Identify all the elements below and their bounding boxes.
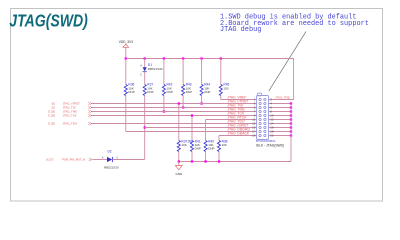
- svg-text:10K: 10K: [181, 143, 186, 147]
- svg-text:10: 10: [270, 114, 274, 118]
- connector pins 17/18: [259, 130, 261, 132]
- connector pins 15/16: [259, 126, 261, 128]
- junction bus pin4: [290, 102, 292, 104]
- junction rail col4: [182, 57, 184, 59]
- wire net JTAG_VREF: [221, 99, 257, 101]
- resistor R41 10K DNP: [190, 141, 193, 152]
- resistor R36 10K DNP: [124, 85, 127, 96]
- ground symbol: [178, 162, 180, 166]
- wire GND bus bottom: [179, 161, 291, 163]
- svg-text:(5): (5): [52, 106, 55, 110]
- svg-text:13: 13: [252, 122, 256, 126]
- connector pins 7/8: [259, 110, 261, 112]
- wire net JTAG_DBGRQ: [126, 131, 257, 133]
- junction nSRST: [144, 126, 146, 128]
- svg-text:18: 18: [270, 130, 274, 134]
- wire pin6 to GND bus: [269, 107, 292, 109]
- junction bus pin10: [290, 114, 292, 116]
- wire net JTAG_RTCK: [206, 119, 257, 121]
- wire pin8 to GND bus: [269, 111, 292, 113]
- svg-text:100: 100: [223, 86, 228, 90]
- wire POR to D2 anode: [92, 159, 107, 161]
- svg-text:SILK - JTAG(SWD): SILK - JTAG(SWD): [256, 143, 284, 147]
- connector J1 20-pin header body: [257, 96, 269, 140]
- junction rail col6: [220, 57, 222, 59]
- svg-text:11: 11: [252, 118, 255, 122]
- junction bus pin16: [290, 126, 292, 128]
- junction R41 top: [191, 114, 193, 116]
- svg-text:19: 19: [252, 134, 256, 138]
- resistor R38 10K: [217, 141, 220, 152]
- wire R43 down: [182, 96, 184, 108]
- wire R40 up to row: [205, 120, 207, 141]
- svg-text:DNP: DNP: [204, 90, 210, 94]
- svg-text:JTAG_TDO: JTAG_TDO: [227, 120, 245, 124]
- resistor R45 100: [219, 85, 222, 96]
- wire net JTAG_nTRST: [92, 103, 257, 105]
- svg-text:JTAG_TCK: JTAG_TCK: [63, 114, 77, 118]
- diode D1 RB521S30: [143, 67, 147, 71]
- wire GND bus vertical: [290, 104, 292, 162]
- junction GND R41: [191, 160, 193, 162]
- svg-text:JTAG_VREF: JTAG_VREF: [227, 96, 246, 100]
- junction R42: [163, 110, 165, 112]
- wire R38 up to row: [218, 136, 220, 141]
- svg-text:(6,27): (6,27): [46, 158, 53, 162]
- wire pin18 to GND bus: [269, 131, 292, 133]
- svg-text:JTAG_TDI: JTAG_TDI: [63, 106, 76, 110]
- svg-text:BH2542WB01: BH2542WB01: [256, 139, 276, 143]
- svg-text:C: C: [117, 156, 119, 159]
- connector pins 3/4: [259, 102, 261, 104]
- svg-text:D1: D1: [148, 63, 152, 67]
- wire pin20 to GND bus: [269, 135, 292, 137]
- resistor R42 10K DNP: [162, 85, 165, 96]
- svg-text:JTAG_DBACK: JTAG_DBACK: [227, 132, 249, 136]
- junction GND R371M: [178, 160, 180, 162]
- resistor R37 10K DNP: [143, 85, 146, 96]
- wire VDD_3V3 drop: [125, 47, 127, 58]
- wire R45 down: [220, 96, 222, 100]
- wire net JTAG_TDO: [92, 123, 257, 125]
- connector polarity notch: [257, 93, 261, 96]
- svg-text:D2: D2: [107, 150, 111, 154]
- svg-text:JTAG_RTCK: JTAG_RTCK: [227, 116, 247, 120]
- svg-text:12: 12: [270, 118, 274, 122]
- connector pins 9/10: [259, 114, 261, 116]
- junction GND R40: [204, 160, 206, 162]
- wire VDD rail: [126, 58, 294, 60]
- resistor R43 10K DNP: [182, 85, 185, 96]
- svg-text:JTAG_nTRST: JTAG_nTRST: [227, 100, 249, 104]
- svg-text:16: 16: [270, 126, 274, 130]
- junction rail col5: [200, 57, 202, 59]
- svg-text:POR_PIN_RST_N: POR_PIN_RST_N: [62, 158, 85, 162]
- svg-text:JTAG_nTRST: JTAG_nTRST: [63, 102, 81, 106]
- wire pin10 to GND bus: [269, 115, 292, 117]
- wire net JTAG_TMS: [92, 111, 257, 113]
- svg-text:VDD_3V3: VDD_3V3: [119, 40, 133, 44]
- svg-text:JTAG(SWD): JTAG(SWD): [9, 10, 88, 30]
- svg-text:JTAG_TDO: JTAG_TDO: [63, 122, 78, 126]
- svg-text:DNP: DNP: [186, 90, 192, 94]
- wire R371M up to row: [178, 104, 180, 141]
- junction bus pin14: [290, 122, 292, 124]
- svg-text:(7,29): (7,29): [48, 122, 55, 126]
- wire R44 down: [201, 96, 203, 104]
- svg-text:JTAG_TCK: JTAG_TCK: [227, 112, 245, 116]
- connector pins 19/20: [259, 134, 261, 136]
- svg-text:14: 14: [270, 122, 274, 126]
- diode D1 column: [144, 59, 146, 68]
- wire R371M to GND: [178, 152, 180, 162]
- note pointer line: [269, 32, 306, 92]
- wire D1 to R37: [144, 72, 146, 85]
- junction bus pin20: [290, 134, 292, 136]
- junction GND R38: [218, 160, 220, 162]
- wire pin2 to VDD rail: [269, 99, 294, 101]
- svg-text:DNP: DNP: [128, 90, 134, 94]
- svg-text:JTAG_TRB: JTAG_TRB: [275, 96, 290, 100]
- svg-text:JTAG_DBGRQ: JTAG_DBGRQ: [227, 128, 250, 132]
- wire R41 to GND: [191, 152, 193, 162]
- resistor R36 column: [125, 59, 127, 85]
- wire R42 down: [163, 96, 165, 112]
- junction bus pin12: [290, 118, 292, 120]
- svg-text:JTAG debug: JTAG debug: [220, 26, 261, 34]
- svg-text:JTAG_TMS: JTAG_TMS: [63, 110, 78, 114]
- svg-text:JTAG_TMS: JTAG_TMS: [227, 108, 245, 112]
- svg-text:(7,29): (7,29): [48, 110, 55, 114]
- wire rail to R44: [201, 59, 203, 85]
- wire pin14 to GND bus: [269, 123, 292, 125]
- junction R371M top: [178, 102, 180, 104]
- wire D2 cathode to riser: [113, 159, 145, 161]
- wire R40 to GND: [205, 152, 207, 162]
- svg-text:DNP: DNP: [195, 147, 201, 151]
- junction rail col3: [163, 57, 165, 59]
- junction bus pin18: [290, 130, 292, 132]
- svg-text:DNP: DNP: [208, 147, 214, 151]
- wire rail to R42: [163, 59, 165, 85]
- junction R44: [200, 102, 202, 104]
- connector pins 1/2: [259, 98, 261, 100]
- wire rail to pin2: [293, 59, 295, 100]
- wire pin16 to GND bus: [269, 127, 292, 129]
- svg-text:C: C: [140, 74, 142, 77]
- diode D2 RB521S30: [107, 157, 112, 162]
- wire net JTAG_DBACK: [219, 135, 257, 137]
- wire net JTAG_nSRST: [145, 127, 257, 129]
- svg-text:DNP: DNP: [167, 90, 173, 94]
- connector pins 5/6: [259, 106, 261, 108]
- svg-text:RB521S30: RB521S30: [104, 166, 119, 170]
- junction rail col2: [144, 57, 146, 59]
- svg-text:JTAG_nSRST: JTAG_nSRST: [227, 124, 249, 128]
- wire R36 to DBGRQ: [125, 96, 127, 132]
- wire net JTAG_TCK: [92, 115, 257, 117]
- svg-text:JTAG_TDI: JTAG_TDI: [227, 104, 243, 108]
- wire rail to R45: [220, 59, 222, 85]
- resistor R40 10K DNP: [204, 141, 207, 152]
- resistor R44 10K DNP: [200, 85, 203, 96]
- junction rail col1: [125, 57, 127, 59]
- wire pin4 to GND bus: [269, 103, 292, 105]
- connector pins 11/12: [259, 118, 261, 120]
- svg-text:10K: 10K: [222, 143, 227, 147]
- junction bus pin6: [290, 106, 292, 108]
- svg-text:DNP: DNP: [147, 90, 153, 94]
- svg-text:RB521S30: RB521S30: [148, 67, 163, 71]
- connector pins 13/14: [259, 122, 261, 124]
- svg-text:17: 17: [252, 130, 256, 134]
- wire R38 to GND: [218, 152, 220, 162]
- resistor R371M 10K: [177, 141, 180, 152]
- svg-text:15: 15: [252, 126, 256, 130]
- wire R41 up to row: [191, 116, 193, 141]
- svg-text:20: 20: [270, 134, 274, 138]
- svg-text:GND: GND: [175, 172, 183, 176]
- svg-text:(7,29): (7,29): [48, 114, 55, 118]
- wire pin12 to GND bus: [269, 119, 292, 121]
- svg-text:(5): (5): [52, 102, 55, 106]
- wire R37 down to POR/D2 line: [144, 96, 146, 160]
- junction bus pin8: [290, 110, 292, 112]
- wire rail to R43: [182, 59, 184, 85]
- wire net JTAG_TDI: [92, 107, 257, 109]
- junction R43: [182, 106, 184, 108]
